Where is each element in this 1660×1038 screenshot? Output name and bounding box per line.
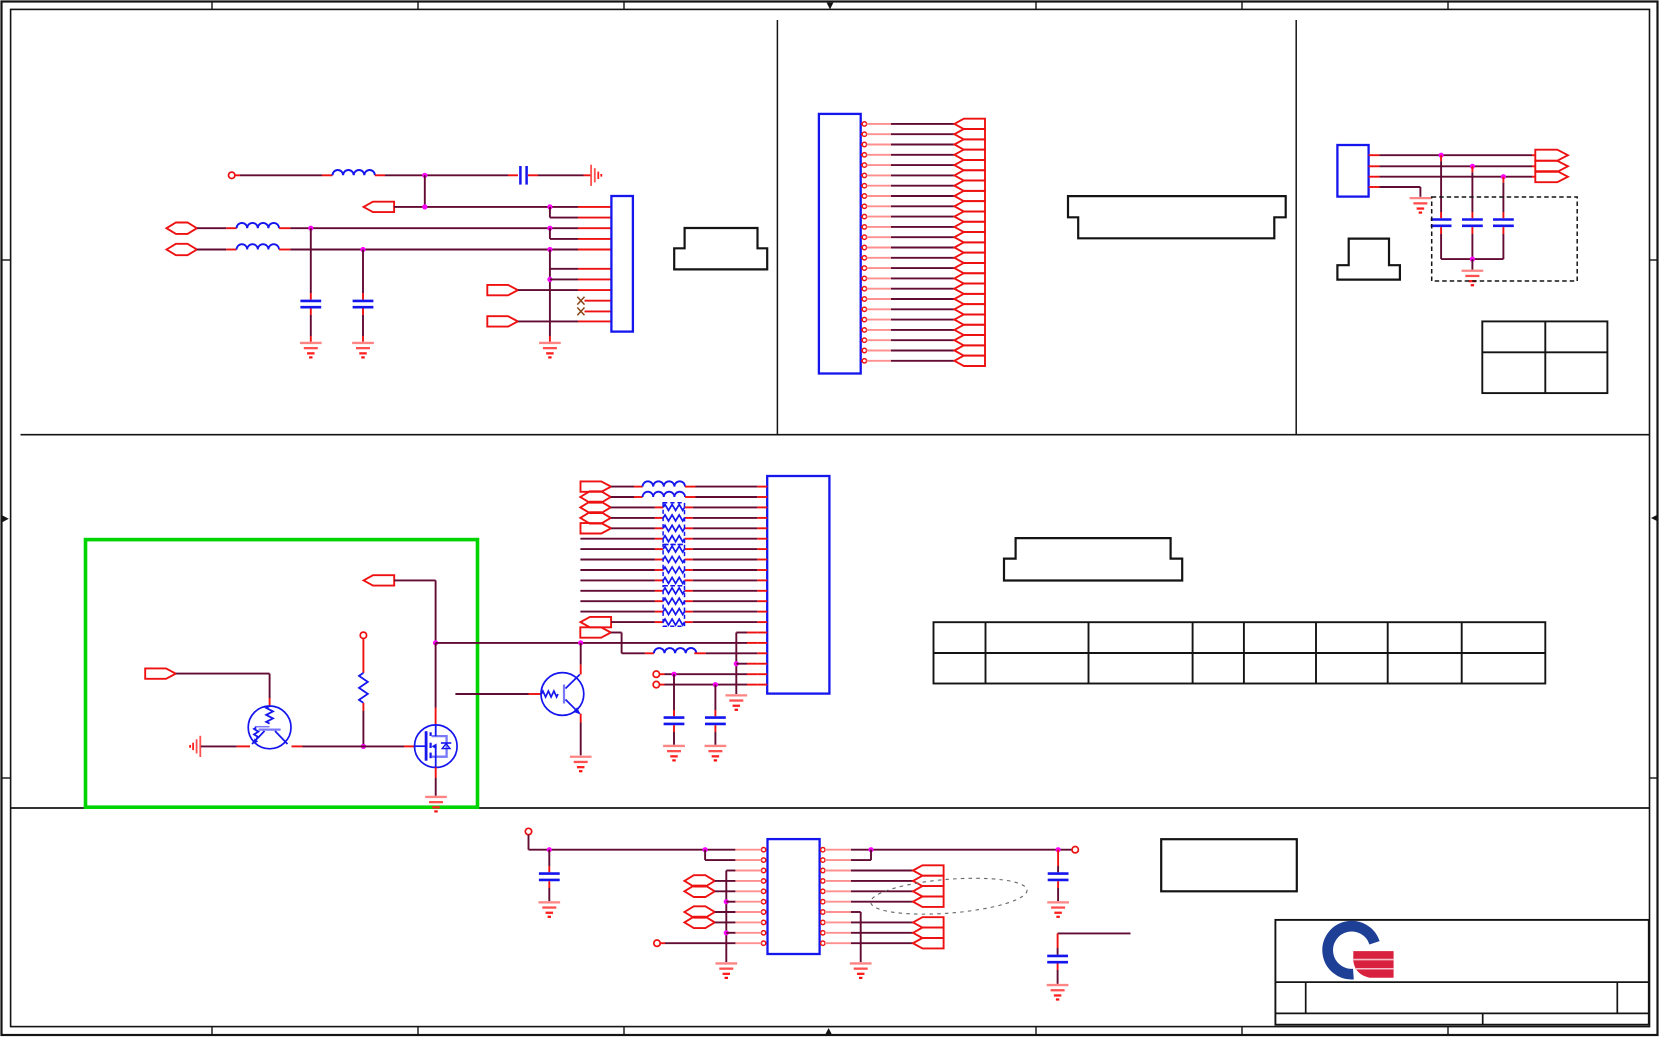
ground <box>425 797 447 811</box>
wire <box>611 517 758 519</box>
terminal VCC2 <box>1072 847 1078 853</box>
wire <box>726 901 735 903</box>
wire <box>867 226 955 228</box>
wire <box>550 278 612 280</box>
border center arrow bottom <box>825 1028 832 1035</box>
wire <box>580 538 757 540</box>
flag NET19 <box>954 304 985 314</box>
ground <box>570 757 592 771</box>
flag NET16 <box>954 273 985 283</box>
wire <box>310 309 312 342</box>
no-connect X <box>577 308 584 316</box>
inductor L4 <box>643 481 685 486</box>
border center arrow left <box>2 515 9 522</box>
inductor L6 <box>654 648 696 653</box>
flag RX1 <box>581 617 612 627</box>
resistor RP2 <box>663 515 684 521</box>
ground <box>1410 198 1432 212</box>
junction <box>671 672 676 677</box>
wire <box>660 673 758 675</box>
resistor RP12 <box>663 619 684 625</box>
flag OUT4 <box>913 897 944 907</box>
wire <box>867 288 955 290</box>
junction <box>1470 164 1475 169</box>
wire <box>705 850 735 860</box>
wire <box>867 298 955 300</box>
flag RX2 <box>580 627 611 637</box>
resistor RP10 <box>663 598 684 604</box>
wire <box>455 693 541 695</box>
junction node A <box>422 173 427 178</box>
junction <box>308 226 313 231</box>
dashed box RP-A <box>663 503 684 545</box>
ground <box>352 343 374 357</box>
wire <box>1471 259 1473 270</box>
wire <box>851 890 913 892</box>
connector CN3 <box>1337 145 1368 197</box>
wire <box>1440 227 1442 259</box>
terminal VCC1 <box>525 828 531 834</box>
port P2 <box>167 244 197 255</box>
wire <box>548 881 550 901</box>
wire <box>611 496 643 498</box>
junction <box>433 640 438 645</box>
flag PORT-A <box>364 202 395 212</box>
wire <box>673 674 675 716</box>
wire <box>851 880 913 882</box>
flag OUT1 <box>913 865 944 875</box>
wire <box>715 921 736 923</box>
wire <box>279 227 611 229</box>
no-connect X <box>577 297 584 305</box>
wire <box>201 745 415 747</box>
dashed box RP-B <box>663 545 684 586</box>
flag NET13 <box>954 242 985 252</box>
port P9 <box>684 917 714 928</box>
flag NET7 <box>954 181 985 191</box>
capacitor C6 <box>1493 218 1514 221</box>
inductor L2 <box>237 223 279 228</box>
flag NET6 <box>954 170 985 180</box>
wire <box>279 249 611 251</box>
flag TX2 <box>581 523 612 533</box>
flag TX1 <box>581 481 612 491</box>
flag NET8 <box>954 191 985 201</box>
wire <box>518 289 612 291</box>
capacitor C2 <box>300 300 321 303</box>
wire <box>867 164 955 166</box>
flag NET22 <box>954 335 985 345</box>
connector outline M5 <box>1161 839 1297 891</box>
wire <box>611 506 758 508</box>
flag NET24 <box>954 356 985 366</box>
ground <box>1047 985 1069 999</box>
section divider vertical 1 <box>776 20 778 435</box>
wire <box>197 227 237 229</box>
flag NET3 <box>954 139 985 149</box>
wire <box>851 912 861 962</box>
flag NETR3 <box>1535 171 1568 182</box>
flag NET10 <box>954 211 985 221</box>
logo blue ring <box>1328 926 1375 974</box>
wire <box>867 123 955 125</box>
dashed box RP-C <box>663 586 684 627</box>
wire <box>685 496 757 498</box>
resistor R1 <box>359 673 368 703</box>
capacitor C5 <box>1462 218 1483 221</box>
terminal TP1 <box>360 632 366 638</box>
flag GATE-IN <box>364 575 395 585</box>
wire <box>528 174 591 176</box>
wire <box>851 901 913 903</box>
section divider horizontal 1 <box>21 434 1650 436</box>
section divider vertical 2 <box>1295 20 1297 435</box>
capacitor C4 <box>1431 218 1452 221</box>
ground <box>705 746 727 760</box>
wire <box>867 267 955 269</box>
wire <box>851 870 913 872</box>
capacitor C11 <box>1047 955 1068 958</box>
terminal TP3 <box>653 681 659 687</box>
inductor L5 <box>643 492 685 497</box>
resistor RP11 <box>663 609 684 615</box>
flag NET12 <box>954 232 985 242</box>
wire <box>310 228 312 299</box>
wire <box>1471 166 1473 218</box>
wire <box>435 767 437 795</box>
junction <box>422 204 427 209</box>
junction <box>361 744 366 749</box>
junction <box>703 847 708 852</box>
wire <box>851 921 913 923</box>
flag NET9 <box>954 201 985 211</box>
connector CN3 pins <box>1369 155 1380 187</box>
wire <box>580 600 757 602</box>
terminal J-A1 <box>229 172 235 178</box>
wire <box>580 559 757 561</box>
flag BASE-IN <box>145 668 176 678</box>
junction <box>547 247 552 252</box>
ground <box>538 902 560 916</box>
wire <box>685 486 757 488</box>
junction <box>724 930 729 935</box>
wire <box>867 144 955 146</box>
flag OUT6 <box>913 928 944 938</box>
wire <box>867 205 955 207</box>
wire <box>1057 881 1059 901</box>
wire <box>529 835 736 850</box>
connector outline M1 <box>674 228 767 269</box>
ground <box>300 343 322 357</box>
wire <box>580 579 757 581</box>
flag PORT-B <box>487 285 518 295</box>
wire <box>867 154 955 156</box>
wire <box>726 871 735 963</box>
wire <box>867 236 955 238</box>
connector outline M3 <box>1337 239 1400 280</box>
port P7 <box>684 886 714 897</box>
IC U1 pins <box>761 848 825 946</box>
wire <box>851 849 1075 851</box>
flag PORT-C <box>487 316 518 326</box>
flag NET15 <box>954 263 985 273</box>
flag NET18 <box>954 294 985 304</box>
border center arrow right <box>1651 515 1658 522</box>
wire <box>550 207 612 218</box>
transistor Q3 MOSFET <box>415 725 458 768</box>
wire <box>673 725 675 745</box>
resistor RP4 <box>663 536 684 542</box>
wire <box>424 175 426 207</box>
junction <box>713 682 718 687</box>
annotation green box <box>86 540 478 808</box>
chassis ground <box>591 165 601 186</box>
junction <box>1439 153 1444 158</box>
wire <box>867 308 955 310</box>
wire <box>1057 964 1059 984</box>
junction <box>1056 847 1061 852</box>
wire <box>867 133 955 135</box>
wire <box>867 350 955 352</box>
capacitor C3 <box>353 300 374 303</box>
junction <box>868 847 873 852</box>
transistor Q1 <box>248 706 291 749</box>
flag NET4 <box>954 150 985 160</box>
title block <box>1275 920 1648 1025</box>
wire <box>867 339 955 341</box>
ground <box>1462 271 1484 285</box>
connector CN2 pins <box>861 122 867 363</box>
terminal TP4 <box>654 940 660 946</box>
wire <box>580 590 757 592</box>
wire <box>851 932 913 934</box>
junction <box>724 899 729 904</box>
flag OUT3 <box>913 886 944 896</box>
wire <box>611 527 757 529</box>
wire <box>660 684 758 686</box>
resistor RP6 <box>663 557 684 563</box>
connector CN1 <box>611 196 633 332</box>
wire <box>1440 155 1442 218</box>
junction <box>547 204 552 209</box>
port P8 <box>684 906 714 917</box>
connector CN2 <box>819 114 861 374</box>
wire <box>580 611 757 613</box>
flag NET2 <box>954 129 985 139</box>
junction <box>1470 257 1475 262</box>
wire <box>235 174 333 176</box>
flag OUT7 <box>913 938 944 948</box>
wire <box>867 195 955 197</box>
IC U1 <box>768 839 820 954</box>
capacitor C8 <box>705 716 726 719</box>
wire <box>694 652 757 654</box>
wire <box>197 249 237 251</box>
dashed box <box>1432 197 1578 281</box>
annotation ellipse <box>869 873 1028 919</box>
wire <box>611 486 643 488</box>
capacitor C1 <box>519 166 522 185</box>
wire <box>726 932 735 934</box>
wire <box>580 548 757 550</box>
wire <box>867 247 955 249</box>
revision table T1 <box>1482 321 1607 393</box>
capacitor C10 <box>1048 872 1069 875</box>
section divider horizontal 2 <box>11 807 1650 809</box>
wire <box>518 320 612 322</box>
wire <box>394 206 611 208</box>
wire <box>1471 227 1473 259</box>
wire <box>611 633 654 654</box>
wire <box>550 268 612 270</box>
border center arrow top <box>827 3 834 10</box>
wire <box>585 310 612 312</box>
resistor RP1 <box>663 504 684 510</box>
ground <box>725 695 747 709</box>
wire <box>714 725 716 745</box>
wire <box>851 850 871 860</box>
junction <box>360 247 365 252</box>
wire <box>176 674 270 707</box>
IC U1 pin stubs <box>735 850 851 944</box>
junction <box>547 277 552 282</box>
wire <box>715 890 736 892</box>
wire <box>1379 176 1535 178</box>
chassis ground <box>190 736 200 757</box>
flag NET11 <box>954 222 985 232</box>
wire <box>867 216 955 218</box>
wire <box>580 714 582 756</box>
wire <box>1502 177 1504 219</box>
ground <box>663 746 685 760</box>
logo red stripes <box>1353 951 1393 978</box>
resistor RP8 <box>663 577 684 583</box>
flag NETR2 <box>1535 161 1568 172</box>
wire <box>1441 258 1503 260</box>
port P5 <box>580 512 610 523</box>
flag NETR1 <box>1535 150 1568 161</box>
junction <box>547 847 552 852</box>
wire <box>585 300 612 302</box>
resistor RP5 <box>663 546 684 552</box>
resistor RP3 <box>663 525 684 531</box>
wire <box>1058 933 1131 954</box>
flag NET17 <box>954 284 985 294</box>
port P3 <box>580 491 610 502</box>
wire <box>736 633 757 695</box>
junction <box>1501 174 1506 179</box>
wire <box>660 942 735 944</box>
wire <box>867 277 955 279</box>
connector outline M2 <box>1068 196 1286 238</box>
flag NET23 <box>954 345 985 355</box>
flag NET21 <box>954 325 985 335</box>
wire <box>435 643 437 725</box>
wire <box>1057 850 1059 873</box>
port P6 <box>684 875 714 886</box>
wire <box>1379 154 1535 156</box>
junction <box>734 661 739 666</box>
wire <box>1379 165 1535 167</box>
wire <box>362 703 364 747</box>
inductor L3 <box>237 244 279 249</box>
junction <box>547 226 552 231</box>
wire <box>715 880 736 882</box>
ground <box>1047 902 1069 916</box>
wire <box>394 580 435 643</box>
wire <box>548 850 550 873</box>
flag NET1 <box>954 119 985 129</box>
flag NET20 <box>954 314 985 324</box>
flag NET14 <box>954 253 985 263</box>
wire <box>375 174 518 176</box>
ground <box>539 343 561 357</box>
wire <box>867 319 955 321</box>
wire <box>611 621 757 623</box>
flag OUT2 <box>913 876 944 886</box>
resistor RP9 <box>663 588 684 594</box>
resistor RP7 <box>663 567 684 573</box>
wire <box>715 911 736 913</box>
wire <box>736 663 757 665</box>
wire <box>436 642 758 644</box>
wire <box>1379 187 1420 197</box>
pinout table T2 <box>934 622 1546 683</box>
ground <box>715 963 737 977</box>
wire <box>580 569 757 571</box>
port P4 <box>580 502 610 513</box>
terminal TP2 <box>653 671 659 677</box>
connector CN4 pins <box>757 487 767 685</box>
wire <box>867 257 955 259</box>
connector outline M4 <box>1004 538 1182 580</box>
flag OUT5 <box>913 917 944 927</box>
capacitor C9 <box>539 872 560 875</box>
wire <box>362 309 364 342</box>
connector CN4 <box>767 476 829 694</box>
capacitor C7 <box>664 716 685 719</box>
transistor Q2 <box>541 673 584 716</box>
wire <box>867 185 955 187</box>
wire <box>867 360 955 362</box>
wire <box>714 685 716 717</box>
ground <box>850 963 872 977</box>
wire <box>867 329 955 331</box>
wire <box>851 942 913 944</box>
wire <box>362 250 364 300</box>
wire <box>549 250 551 342</box>
wire <box>550 228 612 239</box>
wire <box>362 639 364 673</box>
flag NET5 <box>954 160 985 170</box>
wire <box>867 174 955 176</box>
port P1 <box>167 223 197 234</box>
wire <box>1502 227 1504 259</box>
inductor L1 <box>333 170 375 175</box>
junction <box>578 640 583 645</box>
wire <box>580 643 582 675</box>
